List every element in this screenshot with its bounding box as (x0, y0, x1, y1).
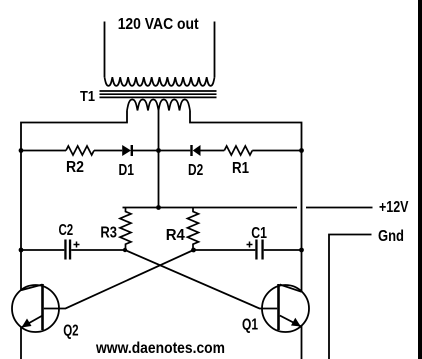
node center-tap/+12V (156, 205, 161, 210)
svg-text:+12V: +12V (379, 199, 409, 216)
node C2/left-rail (19, 248, 24, 253)
transformer T1 primary winding (127, 100, 190, 111)
node bus-right (299, 148, 304, 153)
wire +12V rail (123, 207, 373, 209)
svg-text:D2: D2 (188, 162, 203, 179)
resistor R4 (188, 208, 199, 249)
svg-text:Q1: Q1 (242, 317, 258, 334)
wire primary center tap (158, 111, 160, 208)
wire D1 to center (133, 150, 190, 152)
resistor R3 (120, 208, 131, 249)
wire cross-couple R3 to Q1 base (125, 250, 277, 309)
wire Q1 emitter down (301, 326, 303, 359)
wire Gnd lead (329, 235, 372, 359)
transformer T1 core (100, 91, 217, 97)
wire primary right lead (190, 111, 302, 292)
node bus-left (19, 148, 24, 153)
wire cross-couple R4 to Q2 base (44, 250, 194, 309)
svg-text:C1: C1 (251, 225, 267, 242)
svg-text:Gnd: Gnd (378, 228, 404, 245)
svg-text:R3: R3 (100, 225, 117, 242)
diode D1 (122, 145, 133, 156)
wire bus left segment (21, 150, 66, 152)
svg-text:D1: D1 (119, 162, 135, 179)
wire secondary right lead (214, 22, 216, 78)
wire primary left lead (21, 111, 127, 291)
capacitor C2 (64, 240, 79, 260)
transistor Q1 (262, 284, 309, 332)
svg-text:R4: R4 (166, 227, 185, 244)
node bus-center (156, 148, 161, 153)
svg-text:T1: T1 (80, 88, 95, 105)
wire R4 bottom to C1 (194, 249, 256, 251)
wire D2 to R1 (201, 150, 225, 152)
wire R1 to right rail (252, 150, 301, 152)
node R3 bottom (123, 248, 127, 252)
wire C1 to right rail (264, 249, 302, 251)
wire C2 to R3 bottom (71, 249, 125, 251)
transformer T1 secondary winding (105, 77, 215, 86)
wire Q2 emitter down (20, 328, 22, 359)
transistor Q2 (12, 284, 59, 332)
node C1/right-rail (299, 248, 304, 253)
svg-text:C2: C2 (59, 222, 74, 239)
wire secondary left lead (104, 22, 106, 78)
resistor R1 (224, 146, 252, 155)
wire C2 left (21, 249, 64, 251)
svg-text:Q2: Q2 (63, 323, 78, 340)
node R4 bottom (191, 248, 196, 253)
diode D2 (190, 145, 200, 156)
svg-text:www.daenotes.com: www.daenotes.com (95, 340, 225, 357)
resistor R2 (66, 146, 94, 155)
right image border bar (418, 0, 422, 359)
svg-text:R1: R1 (232, 160, 249, 177)
wire R2 to D1 (94, 150, 122, 152)
capacitor C1 (247, 240, 264, 260)
svg-text:R2: R2 (66, 159, 84, 176)
svg-text:120 VAC out: 120 VAC out (118, 16, 200, 33)
